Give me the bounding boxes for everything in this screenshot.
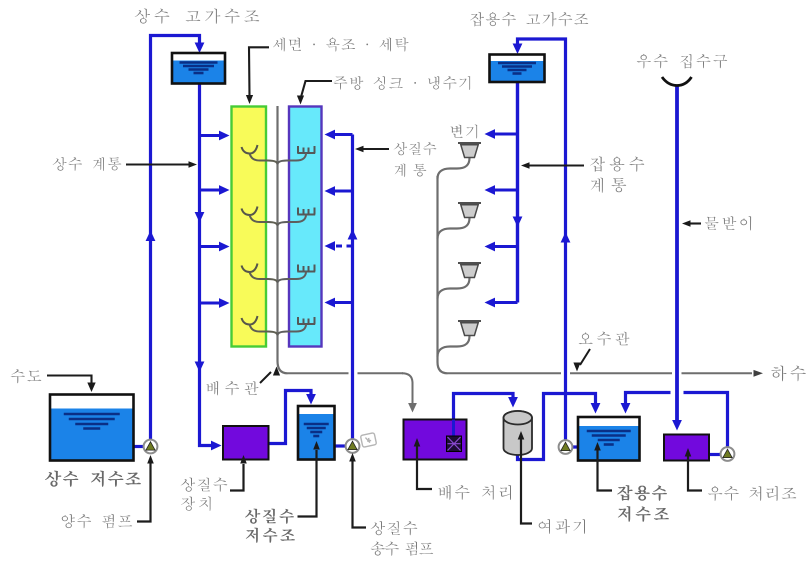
wire: blue feed inside 배수처리 to aerator — [452, 420, 455, 439]
wire: 상질수 riser (pump to cyan column) — [351, 135, 354, 440]
toilet drain curve 2 — [438, 218, 470, 239]
leader 상질수 장치 — [230, 464, 244, 491]
branch arrow into yellow column level 4 — [200, 302, 221, 305]
filter 여과기 — [504, 411, 533, 455]
branch curve down into waste treatment box — [402, 373, 413, 403]
tank 상수 저수조 — [50, 395, 134, 461]
drain branch cyan level 1 — [278, 153, 307, 165]
leader 배수관 — [260, 372, 271, 383]
leader 상질수 송수 펌프 — [353, 461, 367, 528]
branch arrow into cyan column level 1 — [332, 133, 353, 136]
leader 주방 싱크·냉수기 — [301, 81, 332, 97]
label 상수 계통 — [53, 157, 122, 171]
pump 상질수 송수 펌프 — [346, 439, 360, 453]
faucet fixture yellow column level 2 — [242, 207, 258, 216]
arrow into 상질수 장치 — [211, 441, 222, 451]
label 상질수 송수 펌프 line1 — [371, 521, 418, 535]
branch arrow into cyan column level 2 — [332, 190, 353, 193]
wire: rain water downpipe (우수) — [675, 85, 679, 420]
faucet fixture cyan column level 4 — [297, 317, 315, 324]
branch arrow into cyan column level 4 — [332, 301, 353, 304]
label 변기 — [451, 125, 478, 139]
faucet fixture yellow column level 3 — [242, 264, 258, 273]
label 세면·욕조·세탁 — [273, 37, 408, 51]
toilet 변기 4 — [458, 320, 481, 322]
leader 오수관 — [580, 349, 590, 365]
leader 잡용수 계통 — [529, 164, 584, 166]
label 배수관 — [206, 381, 258, 396]
pump 우수 펌프 — [721, 447, 735, 461]
drain branch cyan level 2 — [278, 215, 307, 227]
arrow into 우수 처리조 — [672, 420, 682, 431]
leader 상질수 계통 — [363, 148, 389, 150]
toilet drain curve 3 — [438, 278, 470, 299]
drain branch cyan level 3 — [278, 272, 307, 284]
cyan column (주방 싱크·냉수기) — [289, 107, 322, 347]
label 상질수 저수조 line2 — [246, 528, 295, 543]
box 우수 처리조 — [664, 435, 709, 461]
leader 우수 처리조 — [688, 456, 702, 491]
branch arrow into cyan column level 3 — [332, 245, 353, 248]
wire: 잡용수 riser from pump up and over to 잡용수 고가수조 — [518, 39, 566, 440]
label 오수관 — [579, 332, 630, 346]
label 상수 고가수조 — [135, 9, 260, 24]
faucet fixture yellow column level 1 — [242, 145, 258, 154]
faucet fixture cyan column level 3 — [297, 265, 315, 272]
wire: city water tank to pump — [133, 445, 144, 448]
leader 세면·욕조·세탁 — [249, 47, 269, 96]
label 잡용수 저수조 line1 — [617, 485, 667, 501]
wire: 우수 pump up and over to 잡용수 저수조 — [626, 393, 728, 448]
down arrow on supply line lower — [195, 362, 205, 373]
pump 양수 펌프 — [144, 440, 158, 454]
label 우수 집수구 — [637, 54, 727, 69]
label 상질수 계통 line1 — [394, 142, 437, 155]
sewer main line middle and right segments — [448, 372, 753, 374]
toilet drain curve 4 — [438, 336, 470, 357]
toilet drain riser — [438, 176, 448, 373]
leader 상수 계통 — [126, 163, 189, 165]
down arrow on toilet supply — [513, 217, 523, 228]
branch arrow to toilet 1 — [493, 133, 518, 136]
branch arrow into yellow column level 3 — [200, 245, 221, 248]
label 하수관 — [771, 366, 807, 382]
sewer main line (하수관) left segment — [288, 372, 404, 374]
box 상질수 장치 — [223, 426, 269, 460]
pump 잡용수 양수 펌프 — [559, 440, 573, 454]
label 우수 처리조 — [708, 486, 796, 501]
drain branch yellow level 2 — [250, 215, 278, 226]
toilet drain curve 1 — [438, 158, 470, 179]
wire: 여과기 output up to 잡용수 저수조 — [518, 394, 596, 460]
label 잡용수 저수조 line2 — [618, 506, 669, 522]
label 잡용수 고가수조 — [470, 12, 588, 27]
wire: 잡용수 고가수조 down supply to toilets — [516, 82, 519, 303]
tank 상수 고가수조 — [172, 53, 225, 84]
arrow down into 잡용수 고가수조 — [513, 44, 523, 55]
up arrow on 상질수 riser — [348, 229, 358, 240]
label 상질수 장치 line2 — [181, 497, 211, 512]
label 주방 싱크·냉수기 — [334, 76, 471, 90]
label 상질수 송수 펌프 line2 — [371, 541, 433, 556]
wire: 배수처리 top to 여과기 — [454, 394, 514, 420]
label 잡용수 계통 line1 — [590, 156, 644, 172]
leader 양수 펌프 — [137, 463, 151, 522]
branch arrow to toilet 2 — [493, 189, 518, 192]
drain branch yellow level 1 — [250, 154, 278, 165]
label 수도 — [11, 369, 42, 383]
branch arrow to toilet 3 — [493, 245, 518, 248]
aerator icon inside 배수처리 — [447, 436, 462, 452]
branch arrow into yellow column level 2 — [200, 189, 221, 192]
toilet 변기 3 — [458, 262, 481, 264]
leader 배수 처리 — [417, 446, 432, 489]
wire: 상질수 장치 output to 상질수 저수조 — [269, 391, 312, 444]
box 배수 처리 — [404, 420, 467, 460]
toilet 변기 2 — [458, 202, 481, 204]
leader 물받이 — [690, 222, 701, 224]
label 상질수 저수조 line1 — [245, 509, 294, 524]
label 여과기 — [539, 519, 585, 534]
tank 상질수 저수조 — [298, 406, 335, 460]
faucet fixture cyan column level 2 — [297, 208, 315, 215]
up arrow on left riser — [146, 231, 156, 242]
down arrow on supply line upper — [195, 212, 205, 223]
branch arrow to toilet 4 — [493, 301, 518, 304]
wire: 잡용수 저수조 to pump — [559, 445, 578, 448]
label 상수 저수조 — [45, 471, 141, 487]
wire: 상질수 저수조 to 송수 펌프 — [335, 444, 347, 447]
label 물받이 — [705, 216, 751, 231]
wire: 우수 처리조 to pump — [709, 453, 721, 456]
wire: 상수 고가수조 down supply line — [200, 83, 213, 446]
drain branch yellow level 3 — [250, 272, 278, 283]
leader 수도 — [47, 376, 92, 385]
stray artifact icon near 송수펌프 — [360, 433, 376, 448]
tank 잡용수 고가수조 — [490, 55, 545, 83]
leader 여과기 — [521, 439, 532, 524]
sewer arrowhead to 하수관 — [754, 370, 764, 377]
leader 잡용수 저수조 — [598, 450, 613, 491]
label 양수 펌프 — [62, 514, 132, 529]
arrow down into 상수 고가수조 — [195, 43, 205, 54]
rain collector funnel 우수 집수구 — [662, 77, 692, 86]
faucet fixture cyan column level 1 — [297, 146, 315, 153]
tank 잡용수 저수조 — [578, 417, 640, 461]
faucet fixture yellow column level 4 — [242, 316, 258, 325]
yellow column (세면·욕조·세탁 fixtures) — [232, 107, 267, 347]
drain branch yellow level 4 — [250, 325, 278, 336]
label 상질수 계통 line2 — [394, 164, 426, 178]
drain stack between columns (배수관 riser) — [278, 106, 288, 373]
label 배수 처리 — [438, 485, 511, 500]
drain branch cyan level 4 — [278, 324, 307, 336]
up arrow on 잡용수 riser — [561, 232, 571, 243]
label 상질수 장치 line1 — [181, 478, 228, 492]
branch arrow into yellow column level 1 — [200, 134, 221, 137]
label 잡용수 계통 line2 — [591, 178, 627, 193]
leader 상질수 저수조 — [298, 450, 317, 517]
wire: pump to elevated water tank (left riser) — [151, 36, 200, 441]
toilet 변기 1 — [458, 142, 481, 144]
